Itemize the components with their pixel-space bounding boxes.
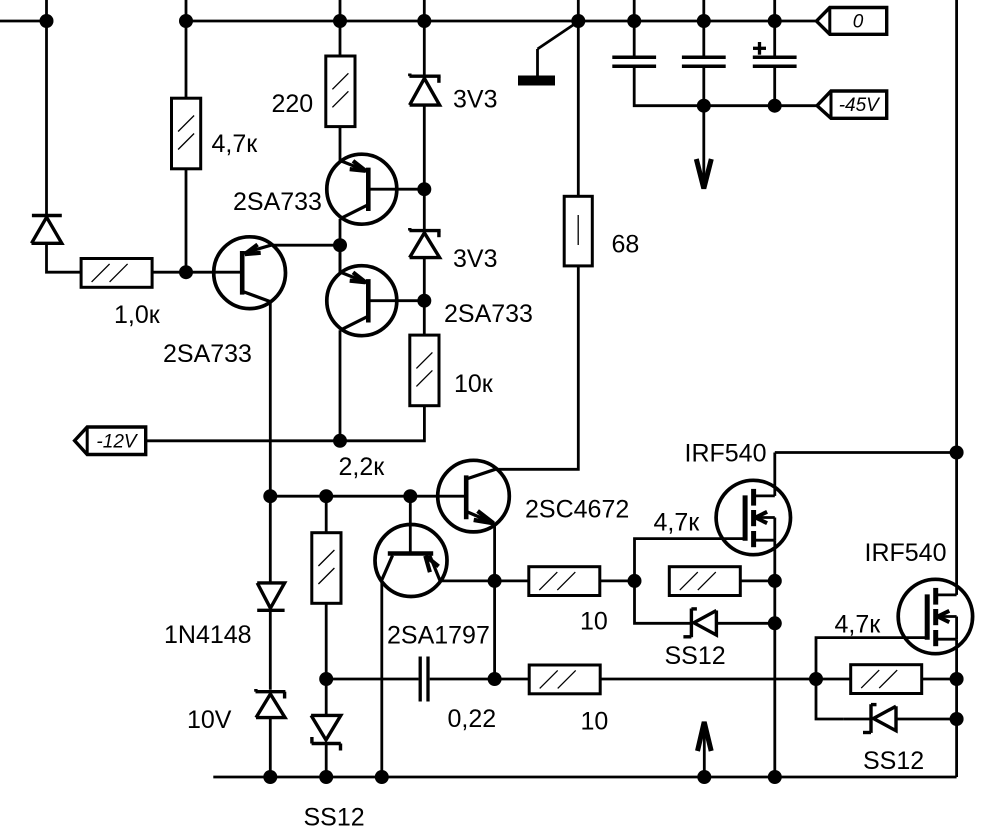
wire diode to corner xyxy=(47,243,82,272)
junction cap node left xyxy=(319,672,333,686)
mosfet U1 body stub xyxy=(754,516,775,519)
svg-text:-45V: -45V xyxy=(839,95,881,116)
wire node to 2,2к xyxy=(325,496,328,533)
capacitor 0,22 xyxy=(419,657,422,702)
transistor Q3 emitter xyxy=(340,272,367,283)
junction rail x=340 xyxy=(333,14,347,28)
transistor Q1 base bar xyxy=(240,251,245,295)
transistor Q3 base bar xyxy=(366,279,371,322)
transistor Q4 emitter arrow xyxy=(478,511,494,523)
mosfet U2 body stub xyxy=(936,615,957,618)
wire 10 to gate node xyxy=(600,580,635,583)
junction source node M1 xyxy=(768,574,782,588)
junction base node T1 xyxy=(179,265,193,279)
mosfet U1 drain stub xyxy=(754,494,775,497)
junction gate node M1 xyxy=(628,574,642,588)
capacitor C3 xyxy=(753,56,797,60)
junction -45V x=704 xyxy=(697,99,711,113)
junction source rail M2 xyxy=(950,672,964,686)
transistor Q1 emitter arrow xyxy=(245,253,261,254)
junction bottom x=326 xyxy=(319,770,333,784)
resistor 10к xyxy=(410,335,439,406)
junction rail x=775 xyxy=(768,14,782,28)
wire SS12-1 to bottom rail xyxy=(325,744,328,778)
transistor Q2 2SA733 circle xyxy=(327,154,397,224)
wire Q1 emitter to x340 xyxy=(271,244,340,247)
wire stub up at x=186 xyxy=(185,0,188,21)
junction left stub xyxy=(40,14,54,28)
wire 68 to rail dot xyxy=(577,21,580,196)
mosfet U1 gate bar xyxy=(743,495,748,540)
svg-text:0: 0 xyxy=(853,12,864,33)
transistor Q1 collector xyxy=(244,292,271,302)
wire U1 drain to right rail xyxy=(775,451,957,454)
wire top rail xyxy=(186,20,817,23)
wire Q1 collector down xyxy=(269,302,272,497)
junction below Q4 emitter xyxy=(488,672,502,686)
wire SS12-3 loop xyxy=(816,679,844,719)
wire zener1 to node xyxy=(423,105,426,189)
resistor 4,7к M1 xyxy=(669,567,740,596)
junction x=326 xyxy=(319,489,333,503)
junction emitter node xyxy=(333,238,347,252)
zener SS12 Z5 xyxy=(869,704,872,733)
junction x=270 xyxy=(263,489,277,503)
flag 0V xyxy=(817,8,887,35)
wire right rail (IRF540 drains) xyxy=(955,0,958,595)
wire Q4 emitter node down xyxy=(493,581,496,679)
svg-text:10: 10 xyxy=(581,708,609,736)
svg-text:2SA1797: 2SA1797 xyxy=(387,622,490,650)
wire cap node to 0,22 xyxy=(326,678,418,681)
transistor Q2 collector xyxy=(340,205,367,219)
svg-text:SS12: SS12 xyxy=(304,804,365,832)
wire Q5 collector to bottom rail xyxy=(380,579,383,777)
transistor Q4 emitter xyxy=(466,512,494,524)
wire stub up at x=578 xyxy=(577,0,580,21)
wire Q3 collector down to -12V rail xyxy=(339,330,342,441)
wire node to 10 resistor xyxy=(495,580,529,583)
resistor 10 R-top xyxy=(529,567,600,596)
transistor Q3 collector xyxy=(340,317,367,331)
svg-text:10: 10 xyxy=(580,608,608,636)
resistor 68 xyxy=(564,196,592,266)
svg-text:2SA733: 2SA733 xyxy=(444,300,533,328)
wire 4,7к to source node M1 xyxy=(740,580,775,583)
wire Q2 base to zener node xyxy=(368,188,424,191)
transistor Q4 base bar xyxy=(464,475,469,519)
transistor Q1 emitter xyxy=(244,245,271,253)
mosfet U2 gate bar xyxy=(925,594,930,639)
wire left column up-stub xyxy=(45,0,48,21)
svg-text:SS12: SS12 xyxy=(665,642,726,670)
transistor Q5 2SA1797 circle xyxy=(375,525,447,597)
junction gate node M2 xyxy=(809,672,823,686)
junction rail x=424 xyxy=(417,14,431,28)
wire 4,7к M2 left xyxy=(816,678,851,681)
svg-text:1N4148: 1N4148 xyxy=(164,621,252,649)
resistor 10 R-bottom xyxy=(529,665,600,694)
svg-text:220: 220 xyxy=(272,90,314,118)
wire stub up at x=424 xyxy=(423,0,426,21)
arrow up (output continuation) xyxy=(703,728,706,777)
wire M1 source to bottom rail xyxy=(773,623,776,777)
wire 1N4148 to 10V xyxy=(269,610,272,689)
junction SS12-3 right xyxy=(950,712,964,726)
wire 4,7к to base node xyxy=(185,169,188,272)
mosfet U2 IRF540 circle xyxy=(898,579,972,653)
svg-text:10к: 10к xyxy=(454,370,494,398)
wire gate loop M1 xyxy=(635,539,746,581)
svg-text:1,0к: 1,0к xyxy=(114,301,161,329)
transistor Q2 base bar xyxy=(366,168,371,211)
svg-text:2SC4672: 2SC4672 xyxy=(525,496,629,524)
transistor Q4 collector xyxy=(468,469,496,478)
wire x=46.5 down to diode xyxy=(45,21,48,216)
junction -45V x=775 xyxy=(768,99,782,113)
junction rail x=704 xyxy=(697,14,711,28)
svg-text:-12V: -12V xyxy=(96,432,138,453)
wire 1,0к to base node xyxy=(152,271,242,274)
wire node to zener 3V3-2 xyxy=(423,189,426,230)
wire 10V to bottom rail xyxy=(269,718,272,777)
svg-text:4,7к: 4,7к xyxy=(212,130,259,158)
wire 220 to Q2 emitter xyxy=(339,127,342,161)
wire node down to Q5 base xyxy=(409,496,412,554)
wire 10 to gate node M2 xyxy=(600,678,816,681)
transistor Q1 2SA733 circle xyxy=(214,237,286,309)
capacitor C3 polarity + xyxy=(753,47,766,50)
svg-text:3V3: 3V3 xyxy=(453,245,497,273)
resistor 1,0к xyxy=(81,259,152,288)
wire source node to SS12-2 node xyxy=(773,581,776,623)
capacitor C1 xyxy=(612,56,656,60)
arrow down (-45V continuation) xyxy=(702,106,705,184)
transistor Q3 2SA733 circle xyxy=(327,266,397,336)
svg-text:3V3: 3V3 xyxy=(453,86,497,114)
resistor 220 xyxy=(326,56,355,127)
svg-text:4,7к: 4,7к xyxy=(654,509,701,537)
svg-text:68: 68 xyxy=(612,231,640,259)
wire stub up at x=775 xyxy=(773,0,776,21)
flag -45V xyxy=(817,91,887,118)
mosfet U1 source stub xyxy=(754,539,775,542)
wire node to 1N4148 xyxy=(269,496,272,582)
diode D1 xyxy=(32,214,62,217)
wire SS12-2 loop xyxy=(635,581,665,623)
svg-text:IRF540: IRF540 xyxy=(865,539,947,567)
wire rail to C3 xyxy=(773,21,776,56)
ground xyxy=(538,22,579,50)
wire node to 10к xyxy=(423,301,426,336)
transistor Q5 base bar xyxy=(388,551,433,555)
diode 1N4148 xyxy=(257,583,284,608)
transistor Q2 emitter arrow xyxy=(353,161,366,171)
wire stub up at x=634 xyxy=(633,0,636,21)
wire C1 to -45V corner xyxy=(634,68,704,106)
mosfet U2 channel xyxy=(933,588,938,605)
svg-text:0,22: 0,22 xyxy=(448,705,497,733)
wire rail to C2 xyxy=(702,21,705,56)
wire -45V line xyxy=(704,104,817,107)
junction emitter/10 node xyxy=(488,574,502,588)
junction Q3 base node xyxy=(417,294,431,308)
wire node to SS12-1 xyxy=(325,679,328,715)
transistor Q2 emitter xyxy=(340,161,367,172)
mosfet U2 drain stub xyxy=(936,594,957,597)
wire zener2 to node xyxy=(423,258,426,301)
wire emitter-node down to Q3 xyxy=(339,245,342,272)
junction Q2 base node xyxy=(417,182,431,196)
wire 4,7к M2 right xyxy=(922,678,957,681)
wire bottom rail xyxy=(213,776,956,779)
wire U2 source rail down xyxy=(955,639,958,777)
svg-text:10V: 10V xyxy=(187,706,232,734)
svg-text:IRF540: IRF540 xyxy=(685,440,767,468)
wire Q3 base to zener node xyxy=(368,299,424,302)
wire Q4 collector to 68 corner xyxy=(495,266,578,469)
wire U1 source down xyxy=(773,540,776,581)
svg-text:2SA733: 2SA733 xyxy=(233,188,322,216)
svg-text:2,2к: 2,2к xyxy=(339,453,386,481)
wire junction to 10 bottom xyxy=(495,678,530,681)
wire Q4 emitter down xyxy=(493,523,496,581)
wire 2,2к to cap node xyxy=(325,603,328,679)
wire C2 to -45V line xyxy=(702,68,705,106)
mosfet U1 IRF540 circle xyxy=(716,480,790,554)
wire Q5 emitter to node xyxy=(439,580,494,583)
wire rail to zener 3V3-1 xyxy=(423,21,426,76)
wire rail to 220 xyxy=(339,21,342,56)
junction x=410 xyxy=(403,489,417,503)
zener SS12 Z3 xyxy=(311,715,341,740)
junction rail x=578 (ground tap) xyxy=(571,14,585,28)
zener 3V3 Z2 xyxy=(409,229,440,232)
resistor 4,7к M2 xyxy=(851,665,922,694)
zener 10V xyxy=(256,690,286,693)
wire gate loop M2 xyxy=(816,638,927,679)
capacitor C2 xyxy=(682,56,726,60)
junction rail x=186 xyxy=(179,14,193,28)
wire stub up at x=340 xyxy=(339,0,342,21)
svg-text:2SA733: 2SA733 xyxy=(163,340,252,368)
transistor Q5 collector xyxy=(382,556,393,580)
junction IRF540-1 drain to rail xyxy=(950,446,964,460)
transistor Q4 2SC4672 circle xyxy=(438,460,510,532)
junction -12V/Q3 collector xyxy=(333,434,347,448)
transistor Q5 emitter xyxy=(430,556,440,581)
zener 3V3 Z1 xyxy=(409,74,440,77)
wire stub up at x=704 xyxy=(702,0,705,21)
wire Q2 collector down to node xyxy=(339,219,342,273)
zener SS12 Z4 xyxy=(690,609,693,638)
wire 10к to -12V corner xyxy=(146,405,425,441)
junction bottom x=704 xyxy=(697,770,711,784)
junction bottom x=381 xyxy=(375,770,389,784)
wire 0,22 to junction xyxy=(430,678,495,681)
resistor 2,2к xyxy=(312,533,341,604)
mosfet U1 channel xyxy=(751,489,756,506)
svg-text:4,7к: 4,7к xyxy=(835,611,882,639)
svg-text:SS12: SS12 xyxy=(863,747,924,775)
flag -12V xyxy=(75,427,146,455)
wire left input stub xyxy=(0,20,47,23)
resistor 4,7к xyxy=(172,98,201,169)
wire rail to 4,7к xyxy=(185,21,188,98)
junction bottom x=775 xyxy=(768,770,782,784)
wire rail to C1 xyxy=(633,21,636,56)
junction bottom x=270 xyxy=(263,770,277,784)
transistor Q3 emitter arrow xyxy=(353,272,366,282)
wire C3 to -45V line xyxy=(773,68,776,106)
transistor Q5 emitter arrow xyxy=(425,556,430,572)
junction rail x=634 xyxy=(627,14,641,28)
junction SS12-2 right xyxy=(768,616,782,630)
wire lower junction line xyxy=(270,495,466,498)
mosfet U2 source stub xyxy=(936,638,957,641)
